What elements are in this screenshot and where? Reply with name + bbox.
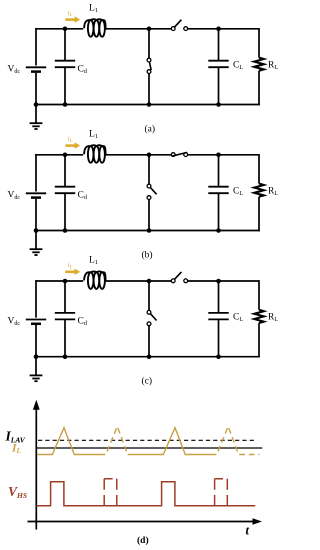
wire: right branch upper (a) [258, 28, 260, 58]
dashed average-current level line [38, 439, 255, 441]
capacitor CL top plate (b) [208, 186, 228, 188]
node: S2 / top rail (b) [147, 153, 152, 158]
svg-text:(a): (a) [145, 124, 156, 135]
VHS dashed pulse 2 [214, 479, 216, 505]
battery Vdc positive plate (b) [26, 192, 46, 194]
wire: top rail left segment (c) [35, 280, 83, 282]
solid reference level line [36, 447, 262, 449]
node: CL / bottom rail (c) [216, 354, 221, 359]
svg-text:(d): (d) [137, 535, 149, 546]
wire: CL branch lower (a) [218, 67, 220, 104]
switch S2 lever (b) [150, 187, 156, 194]
wire: top rail right segment (a) [188, 28, 259, 30]
node: Cd / top rail (c) [63, 279, 68, 284]
wire: Cd branch lower (a) [64, 67, 66, 104]
wire: CL branch lower (b) [218, 193, 220, 230]
switch S2 lever (a) [149, 62, 151, 70]
capacitor CL top plate (c) [208, 312, 228, 314]
node: CL / top rail (a) [216, 27, 221, 32]
battery Vdc negative plate (c) [31, 323, 41, 326]
y-axis arrowhead [33, 400, 40, 410]
wire: CL branch upper (a) [218, 28, 220, 61]
current arrow iL (a) [65, 18, 75, 21]
node: S2 / bottom rail (b) [147, 228, 152, 233]
wire: middle branch upper (a) [148, 28, 150, 58]
wire: right branch lower (c) [258, 323, 260, 358]
svg-text:(b): (b) [142, 250, 153, 261]
wire: left branch upper (b) [35, 154, 37, 192]
battery Vdc negative plate (a) [31, 70, 41, 73]
switch S2 contact circles (a) [147, 58, 151, 62]
inductor L1 coil (c) [88, 272, 94, 289]
wire: right branch lower (b) [258, 197, 260, 232]
switch S2 lever (c) [150, 314, 156, 321]
capacitor Cd top plate (b) [55, 186, 75, 188]
VHS dashed pulse 1 [103, 479, 105, 505]
resistor RL zigzag (a) [254, 58, 264, 71]
wire: middle branch lower (b) [148, 200, 150, 231]
x-axis [28, 521, 255, 523]
wire: left branch lower (a) [35, 73, 37, 105]
switch S2 contact circles (b) [147, 184, 151, 188]
waveform plot (d) y-axis [35, 407, 37, 530]
wire: bottom rail (a) [36, 104, 260, 106]
wire: middle branch lower (c) [148, 326, 150, 357]
wire: top rail right segment (b) [188, 154, 259, 156]
svg-text:(c): (c) [142, 376, 153, 387]
capacitor CL bottom plate (c) [208, 318, 228, 320]
wire: bottom rail (b) [36, 230, 260, 232]
current arrow iL (b) [65, 144, 75, 147]
ground symbol (c) [35, 357, 37, 375]
battery Vdc positive plate (c) [26, 319, 46, 321]
node: Cd / bottom rail (a) [63, 102, 68, 107]
capacitor CL bottom plate (b) [208, 192, 228, 194]
wire: bottom rail (c) [36, 356, 260, 358]
node: ground / bottom rail (a) [34, 102, 39, 107]
wire: top rail middle segment (a) [106, 28, 172, 30]
node: CL / bottom rail (a) [216, 102, 221, 107]
wire: top rail right segment (c) [188, 280, 259, 282]
capacitor CL bottom plate (a) [208, 66, 228, 68]
ground symbol (a) [35, 105, 37, 123]
wire: top rail middle segment (b) [106, 154, 172, 156]
inductor L1 coil (a) [88, 20, 94, 37]
node: S2 / bottom rail (c) [147, 354, 152, 359]
node: ground / bottom rail (b) [34, 228, 39, 233]
wire: top rail middle segment (c) [106, 280, 172, 282]
resistor RL zigzag (c) [254, 310, 264, 323]
switch S1 top-rail contact circles (a) [171, 27, 175, 31]
wire: right branch lower (a) [258, 71, 260, 106]
wire: Cd branch upper (a) [64, 28, 66, 61]
node: Cd / top rail (b) [63, 153, 68, 158]
capacitor Cd top plate (c) [55, 312, 75, 314]
wire: left branch lower (c) [35, 325, 37, 357]
node: S2 / top rail (a) [147, 27, 152, 32]
switch S1 lever (b) [172, 152, 187, 156]
wire: middle branch upper (b) [148, 154, 150, 184]
node: CL / top rail (c) [216, 279, 221, 284]
node: ground / bottom rail (c) [34, 354, 39, 359]
wire: top rail left segment (b) [35, 154, 83, 156]
node: CL / bottom rail (b) [216, 228, 221, 233]
wire: CL branch upper (c) [218, 280, 220, 313]
node: Cd / bottom rail (b) [63, 228, 68, 233]
wire: right branch upper (b) [258, 154, 260, 184]
capacitor Cd bottom plate (c) [55, 318, 75, 320]
node: S2 / bottom rail (a) [147, 102, 152, 107]
switch S1 top-rail contact circles (b) [171, 153, 175, 157]
wire: middle branch lower (a) [148, 74, 150, 105]
current arrow iL (c) [65, 270, 75, 273]
inductor L1 coil (b) [88, 146, 94, 163]
VHS gate waveform: solid pulses and baseline [37, 482, 256, 506]
IL inductor-current waveform: dashed segments [100, 426, 260, 454]
switch S1 lever (a) [174, 20, 181, 28]
wire: Cd branch lower (c) [64, 319, 66, 356]
battery Vdc negative plate (b) [31, 196, 41, 199]
wire: CL branch upper (b) [218, 154, 220, 187]
capacitor CL top plate (a) [208, 60, 228, 62]
x-axis arrowhead [253, 518, 263, 525]
capacitor Cd bottom plate (a) [55, 66, 75, 68]
wire: left branch upper (c) [35, 280, 37, 318]
wire: middle branch upper (c) [148, 280, 150, 310]
wire: left branch lower (b) [35, 199, 37, 231]
IL inductor-current waveform: solid segments [38, 428, 211, 455]
wire: CL branch lower (c) [218, 319, 220, 356]
wire: top rail left segment (a) [35, 28, 83, 30]
switch S1 lever (c) [174, 272, 181, 280]
capacitor Cd top plate (a) [55, 60, 75, 62]
battery Vdc positive plate (a) [26, 66, 46, 68]
resistor RL zigzag (b) [254, 184, 264, 197]
node: Cd / top rail (a) [63, 27, 68, 32]
wire: left branch upper (a) [35, 28, 37, 66]
wire: Cd branch upper (b) [64, 154, 66, 187]
wire: Cd branch lower (b) [64, 193, 66, 230]
switch S1 top-rail contact circles (c) [171, 279, 175, 283]
ground symbol (b) [35, 231, 37, 249]
node: Cd / bottom rail (c) [63, 354, 68, 359]
node: S2 / top rail (c) [147, 279, 152, 284]
switch S2 contact circles (c) [147, 310, 151, 314]
wire: Cd branch upper (c) [64, 280, 66, 313]
wire: right branch upper (c) [258, 280, 260, 310]
node: CL / top rail (b) [216, 153, 221, 158]
capacitor Cd bottom plate (b) [55, 192, 75, 194]
svg-text:t: t [246, 524, 250, 538]
